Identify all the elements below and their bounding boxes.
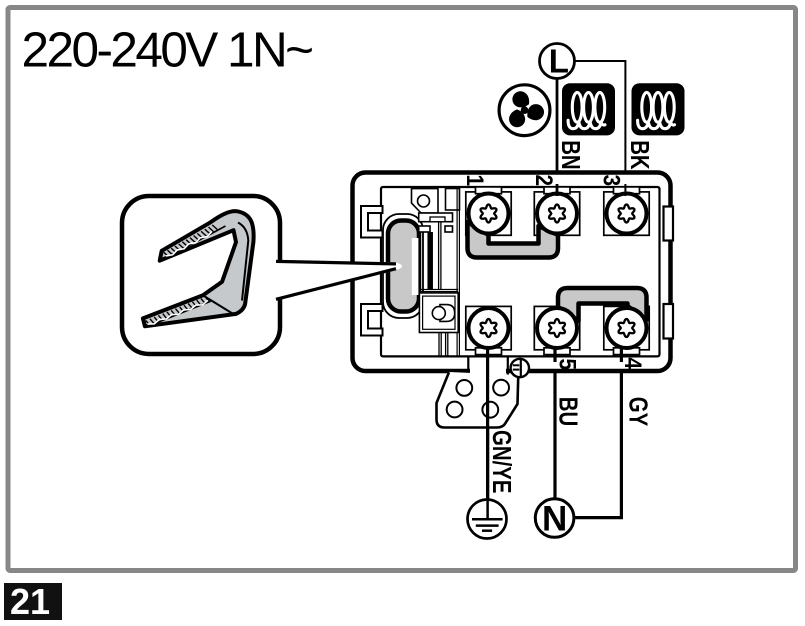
heating element BN (black box with coil) (562, 83, 615, 135)
svg-text:BK: BK (625, 140, 654, 170)
terminal 3 plate (604, 187, 649, 235)
left mounting bracket top (361, 206, 383, 238)
callout pointer (276, 260, 402, 300)
terminal 5 screw (537, 308, 577, 348)
molding: keyhole tab + circle (440, 305, 455, 322)
thread highlight top prong (166, 232, 212, 256)
block inner rect (381, 187, 660, 356)
clip 3D crease right side (238, 223, 248, 301)
svg-text:N: N (542, 500, 567, 539)
block outer body (353, 173, 671, 372)
terminal 4 plate (604, 306, 649, 354)
wire over tab T5 (553, 347, 556, 362)
node L (540, 44, 575, 79)
terminal 2 plate (534, 187, 579, 235)
fan motor icon (499, 85, 550, 136)
molding: top-left tab with circle (412, 189, 439, 213)
wire over tab T2 (556, 184, 559, 196)
terminal 5 plate (534, 306, 579, 354)
terminal earth screw (469, 308, 509, 348)
thread hatching top prong (164, 225, 218, 257)
jumper clip drawing (143, 211, 254, 326)
terminal 1 screw (469, 194, 509, 234)
terminal 4 screw (607, 308, 647, 348)
molding: gray jumper holder (388, 221, 419, 312)
callout bubble (122, 196, 280, 354)
svg-text:L: L (549, 43, 569, 80)
clip body silhouette (143, 211, 254, 326)
svg-text:GY: GY (624, 397, 653, 427)
wire: GN/YE earth wire (486, 340, 489, 501)
svg-text:220-240V 1N~: 220-240V 1N~ (22, 23, 313, 78)
bottom prong arris (147, 301, 211, 326)
thread highlight bottom prong (147, 300, 208, 324)
ground wire over bracket (486, 348, 489, 501)
wire: L circle down to terminal 2 (556, 78, 559, 200)
top prong arris (166, 226, 226, 258)
molding: thick vertical band (427, 232, 433, 290)
thread hatching bottom prong (146, 297, 210, 326)
clip 3D crease bottom bend (204, 296, 233, 314)
wire: BU to N (553, 340, 556, 500)
svg-text:1: 1 (462, 175, 490, 187)
left mounting bracket bottom (361, 304, 383, 336)
molding: vertical divider double line (456, 187, 458, 356)
wire: GY to N (573, 340, 621, 518)
svg-text:BN: BN (556, 140, 585, 169)
svg-text:BU: BU (554, 397, 583, 426)
page number badge 21 (4, 583, 62, 620)
molding: white stripe inside holder right side (412, 238, 419, 295)
wire over tab T3 (624, 184, 626, 196)
svg-text:2: 2 (530, 175, 558, 187)
molding: clamp rects (419, 213, 453, 222)
terminal 2 screw (537, 194, 577, 234)
molding: horizontal double line above keyhole square (419, 289, 458, 291)
molding: bottom stubs (438, 333, 440, 356)
molding: vertical channel lines (438, 222, 440, 290)
molding: seat outline (383, 214, 423, 318)
terminal 1 plate (466, 187, 511, 235)
svg-text:GN/YE: GN/YE (487, 430, 516, 493)
svg-text:3: 3 (598, 175, 626, 187)
terminal 3 screw (607, 194, 647, 234)
right tab top (664, 207, 674, 241)
molding: tall rect at top (446, 189, 460, 211)
bridge link terminals 5-4 (558, 288, 647, 321)
heating element BK (black box with coil) (632, 83, 685, 135)
earth screw symbol (511, 359, 529, 377)
svg-text:4: 4 (619, 358, 647, 370)
earth ground symbol (468, 500, 507, 539)
molding: keyhole square (419, 293, 458, 333)
wire over tab T4 (620, 347, 623, 362)
node N (535, 499, 574, 538)
bridge link terminals 1-2 (468, 222, 559, 258)
wire: L circle right then down to terminal 3 (574, 61, 625, 200)
ground bracket with holes (437, 348, 519, 501)
svg-text:5: 5 (554, 359, 582, 371)
terminal earth plate (466, 306, 511, 354)
right tab bottom (664, 304, 674, 339)
